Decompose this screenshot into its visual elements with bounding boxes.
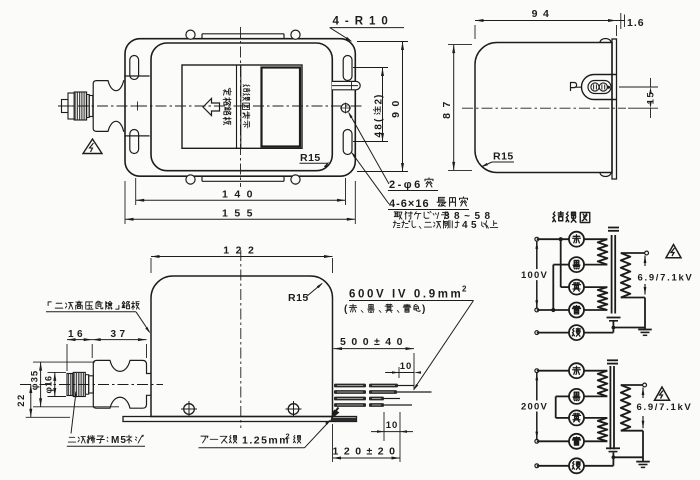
wire top row	[537, 238, 569, 240]
top view: bottom seam strip	[202, 180, 284, 182]
top view: horizontal centerline	[58, 105, 363, 107]
slot 6x16 top-left	[130, 56, 139, 80]
wire top row	[537, 370, 569, 372]
terminal midori (green)	[569, 325, 584, 340]
svg-text:10: 10	[400, 361, 413, 372]
primary coil P2 (200V)	[598, 418, 608, 441]
dim 1.6	[620, 13, 622, 29]
knurled terminal knob (front)	[73, 372, 85, 396]
grommet hole 1	[591, 83, 599, 91]
earth lug	[332, 408, 339, 419]
nameplate plate	[182, 65, 302, 148]
top view: wire grommet tab	[332, 81, 360, 89]
dim 500	[413, 353, 415, 390]
top view: bottom screw boss right	[291, 175, 300, 184]
lead wire 2 (black)	[334, 390, 366, 394]
core bottom mark (100V)	[607, 317, 621, 319]
top view: bottom screw boss left	[186, 175, 195, 184]
wire bottom row	[537, 309, 569, 311]
terminal kuro (black)	[569, 257, 584, 272]
wiring diagram 100V connection	[519, 228, 693, 341]
node input bottom	[535, 439, 539, 443]
series jumper black-yellow	[555, 396, 557, 418]
svg-text:2: 2	[286, 432, 290, 441]
terminal ki (200V)	[569, 410, 584, 425]
insulator bushing (top view)	[93, 81, 124, 132]
voltage label 100V	[519, 269, 550, 280]
hole 2-phi6 right	[341, 104, 350, 113]
terminal ring (front)	[85, 375, 88, 395]
primary coil P1 (200V)	[598, 371, 608, 397]
node earth	[535, 464, 539, 468]
svg-text:16: 16	[68, 329, 86, 340]
top view: mounting flange plate	[125, 39, 355, 177]
svg-text:φ16: φ16	[44, 376, 54, 394]
svg-text:94: 94	[532, 8, 555, 20]
terminal screw tip (top view)	[62, 100, 69, 113]
side view: bottom screw bump	[600, 173, 611, 177]
mount screw left	[184, 404, 195, 415]
terminal cap nut (top view)	[68, 93, 74, 119]
wire blue to coil (200V)	[584, 440, 607, 442]
label earth wire	[201, 436, 208, 443]
slot 6x16 bottom-left	[130, 130, 139, 154]
secondary coil (100V)	[621, 253, 631, 298]
terminal kuro (200V)	[569, 389, 584, 404]
dim 16	[67, 339, 92, 341]
dim 90	[357, 41, 408, 43]
svg-text:200V: 200V	[521, 402, 548, 413]
dim 94	[474, 25, 476, 39]
wiring diagram 200V connection	[519, 360, 692, 473]
svg-text:2-φ6: 2-φ6	[389, 179, 423, 191]
secondary bottom wire (200V)	[621, 430, 643, 432]
jumper rail red-yellow	[560, 239, 562, 287]
svg-text:10: 10	[386, 420, 399, 431]
core bottom mark (200V)	[606, 447, 620, 449]
svg-text:600V IV 0.9mm: 600V IV 0.9mm	[349, 289, 463, 301]
svg-text:R15: R15	[300, 152, 321, 164]
label nijikouatsu nameplate	[48, 302, 51, 306]
dim 48 note text	[374, 94, 385, 138]
wire red to coil (200V)	[584, 370, 607, 372]
svg-text:90: 90	[390, 95, 402, 118]
mount screw right	[288, 404, 299, 415]
slot 6x16 top-right	[343, 56, 352, 81]
front view: body	[151, 276, 333, 417]
core lines (100V)	[611, 235, 613, 314]
core top mark (100V)	[608, 227, 619, 229]
jumper rail black-blue	[552, 265, 554, 310]
svg-text:M5: M5	[111, 435, 127, 446]
grommet clamp hook	[571, 83, 582, 92]
insulator bushing (front)	[93, 360, 151, 408]
terminal aka (red)	[569, 232, 584, 247]
dim 155	[124, 181, 126, 224]
input voltage span line	[536, 241, 538, 308]
dim 48 (note2)	[353, 67, 388, 69]
dim 10 top	[398, 367, 400, 378]
ground symbol secondary (200V)	[636, 461, 650, 463]
top view: boss center mark	[133, 105, 142, 107]
node input top	[535, 237, 539, 241]
voltage label 200V	[519, 401, 550, 412]
hazard triangle (top view)	[83, 139, 102, 154]
svg-text:15: 15	[646, 91, 657, 105]
front view: base plate	[123, 417, 357, 422]
svg-text:2): 2)	[374, 94, 385, 105]
svg-text:4-R10: 4-R10	[333, 16, 394, 28]
nameplate fold lines	[236, 65, 238, 148]
input voltage span line	[536, 373, 538, 440]
wire yellow to coil (200V)	[584, 417, 607, 419]
kV dimension (200V)	[642, 388, 645, 396]
wire black to coil	[584, 264, 607, 266]
side view: wire grommet	[582, 75, 618, 100]
svg-text:): )	[422, 304, 425, 315]
wire black to coil (200V)	[584, 395, 607, 397]
terminal washer (top view)	[89, 96, 93, 117]
dim phi16	[48, 371, 67, 373]
svg-text:87: 87	[441, 96, 453, 119]
node earth	[535, 331, 539, 335]
terminal midori (200V)	[569, 458, 584, 473]
terminal ring (top view)	[87, 95, 90, 118]
top view: transformer body cover	[151, 43, 332, 171]
leader to phi6 hole	[349, 113, 389, 184]
hazard triangle (200V)	[655, 387, 670, 400]
secondary coil (200V)	[621, 385, 631, 431]
svg-text:37: 37	[110, 329, 128, 340]
top view: bushing boss plate	[124, 75, 149, 77]
dim 16-37 ext lines	[66, 344, 68, 371]
svg-text:R15: R15	[288, 292, 309, 304]
primary coil P1 (100V)	[598, 239, 608, 264]
svg-text:122: 122	[223, 245, 260, 257]
wiring diagram title kessenzu	[553, 212, 564, 222]
svg-text:48(: 48(	[374, 116, 385, 137]
top view: vertical centerline	[240, 27, 242, 187]
wire yellow to coil	[584, 286, 607, 288]
nameplate arrow symbol	[203, 99, 220, 116]
wire bottom row	[537, 440, 569, 442]
svg-text:120±20: 120±20	[333, 446, 401, 458]
note nijigawa	[393, 221, 400, 228]
core ground link (200V)	[612, 453, 614, 466]
side view: top screw bump	[600, 39, 611, 43]
secondary top wire	[621, 252, 645, 254]
svg-text:4-6×16: 4-6×16	[389, 198, 430, 210]
side view: centerline	[462, 107, 626, 109]
nameplate text kessenzu-hyouji	[243, 85, 250, 92]
svg-text:100V: 100V	[521, 270, 548, 281]
wire earth row	[537, 332, 569, 334]
svg-text:1.25mm: 1.25mm	[242, 435, 290, 447]
svg-text:2: 2	[462, 285, 467, 294]
dim 87 (side view)	[448, 44, 472, 46]
top view: top seam strip	[202, 33, 284, 35]
dim 120	[332, 424, 334, 462]
svg-text:R15: R15	[493, 151, 514, 163]
terminal ao (200V)	[569, 434, 584, 449]
wire earth row	[537, 465, 569, 467]
dim 37	[92, 339, 146, 341]
grommet dot	[607, 86, 610, 89]
core ground link (100V)	[612, 322, 614, 333]
dim 15	[619, 86, 658, 88]
terminal ki (yellow)	[569, 280, 584, 295]
front view: bushing centerline	[20, 384, 163, 386]
ground symbol secondary (100V)	[638, 329, 652, 331]
svg-text:140: 140	[222, 189, 259, 201]
node input bottom	[535, 308, 539, 312]
lead wire 4 (blue)	[334, 403, 366, 407]
terminal cap nut (front)	[67, 374, 73, 396]
core lines (200V)	[609, 366, 611, 449]
wire red to coil	[584, 238, 607, 240]
terminal aka (200V)	[569, 363, 584, 378]
svg-text:500±40: 500±40	[340, 336, 408, 348]
primary coil P2 (100V)	[598, 287, 608, 310]
lead wire 3 (yellow)	[334, 397, 366, 401]
kV dimension (100V)	[644, 256, 647, 264]
wire green to ground (200V)	[584, 465, 613, 467]
grommet hole 2	[599, 83, 607, 91]
svg-text:6.9/7.1kV: 6.9/7.1kV	[637, 402, 693, 413]
secondary bottom wire	[621, 297, 645, 299]
svg-text:45: 45	[462, 220, 480, 231]
dim 122	[150, 258, 152, 273]
dim 140	[135, 178, 137, 205]
wire green to ground	[584, 332, 613, 334]
side view: flange plate 1.6	[612, 39, 617, 179]
svg-text:1.6: 1.6	[627, 17, 645, 29]
lead wire 1 (red)	[334, 384, 366, 388]
slot 6x16 bottom-right	[343, 130, 352, 155]
dim 22	[26, 416, 70, 418]
wire blue to coil	[584, 309, 607, 311]
node input top	[535, 369, 539, 373]
nameplate text teikaku-meiban	[223, 88, 231, 95]
secondary top wire (200V)	[621, 384, 643, 386]
svg-text:6.9/7.1kV: 6.9/7.1kV	[638, 273, 694, 284]
terminal ao (blue)	[569, 303, 584, 318]
leader to oblong slot	[352, 153, 389, 204]
dim phi35	[33, 361, 95, 363]
top view: top screw boss left	[186, 30, 195, 39]
side view: body	[475, 43, 612, 173]
dim 10 bottom	[383, 412, 385, 441]
label secondary terminal M5	[68, 437, 75, 442]
svg-text:22: 22	[16, 393, 27, 407]
core top mark (200V)	[607, 359, 618, 361]
grommet inner oval	[588, 81, 611, 94]
nameplate inner window	[262, 68, 301, 147]
svg-text:155: 155	[222, 208, 259, 220]
hazard triangle (100V)	[666, 245, 681, 258]
front view: vertical centerline	[240, 250, 242, 428]
terminal washer (front)	[89, 376, 94, 393]
note mounting pitch	[394, 212, 402, 219]
knurled terminal knob (top view)	[74, 92, 86, 120]
top view: top screw boss right	[291, 30, 300, 39]
